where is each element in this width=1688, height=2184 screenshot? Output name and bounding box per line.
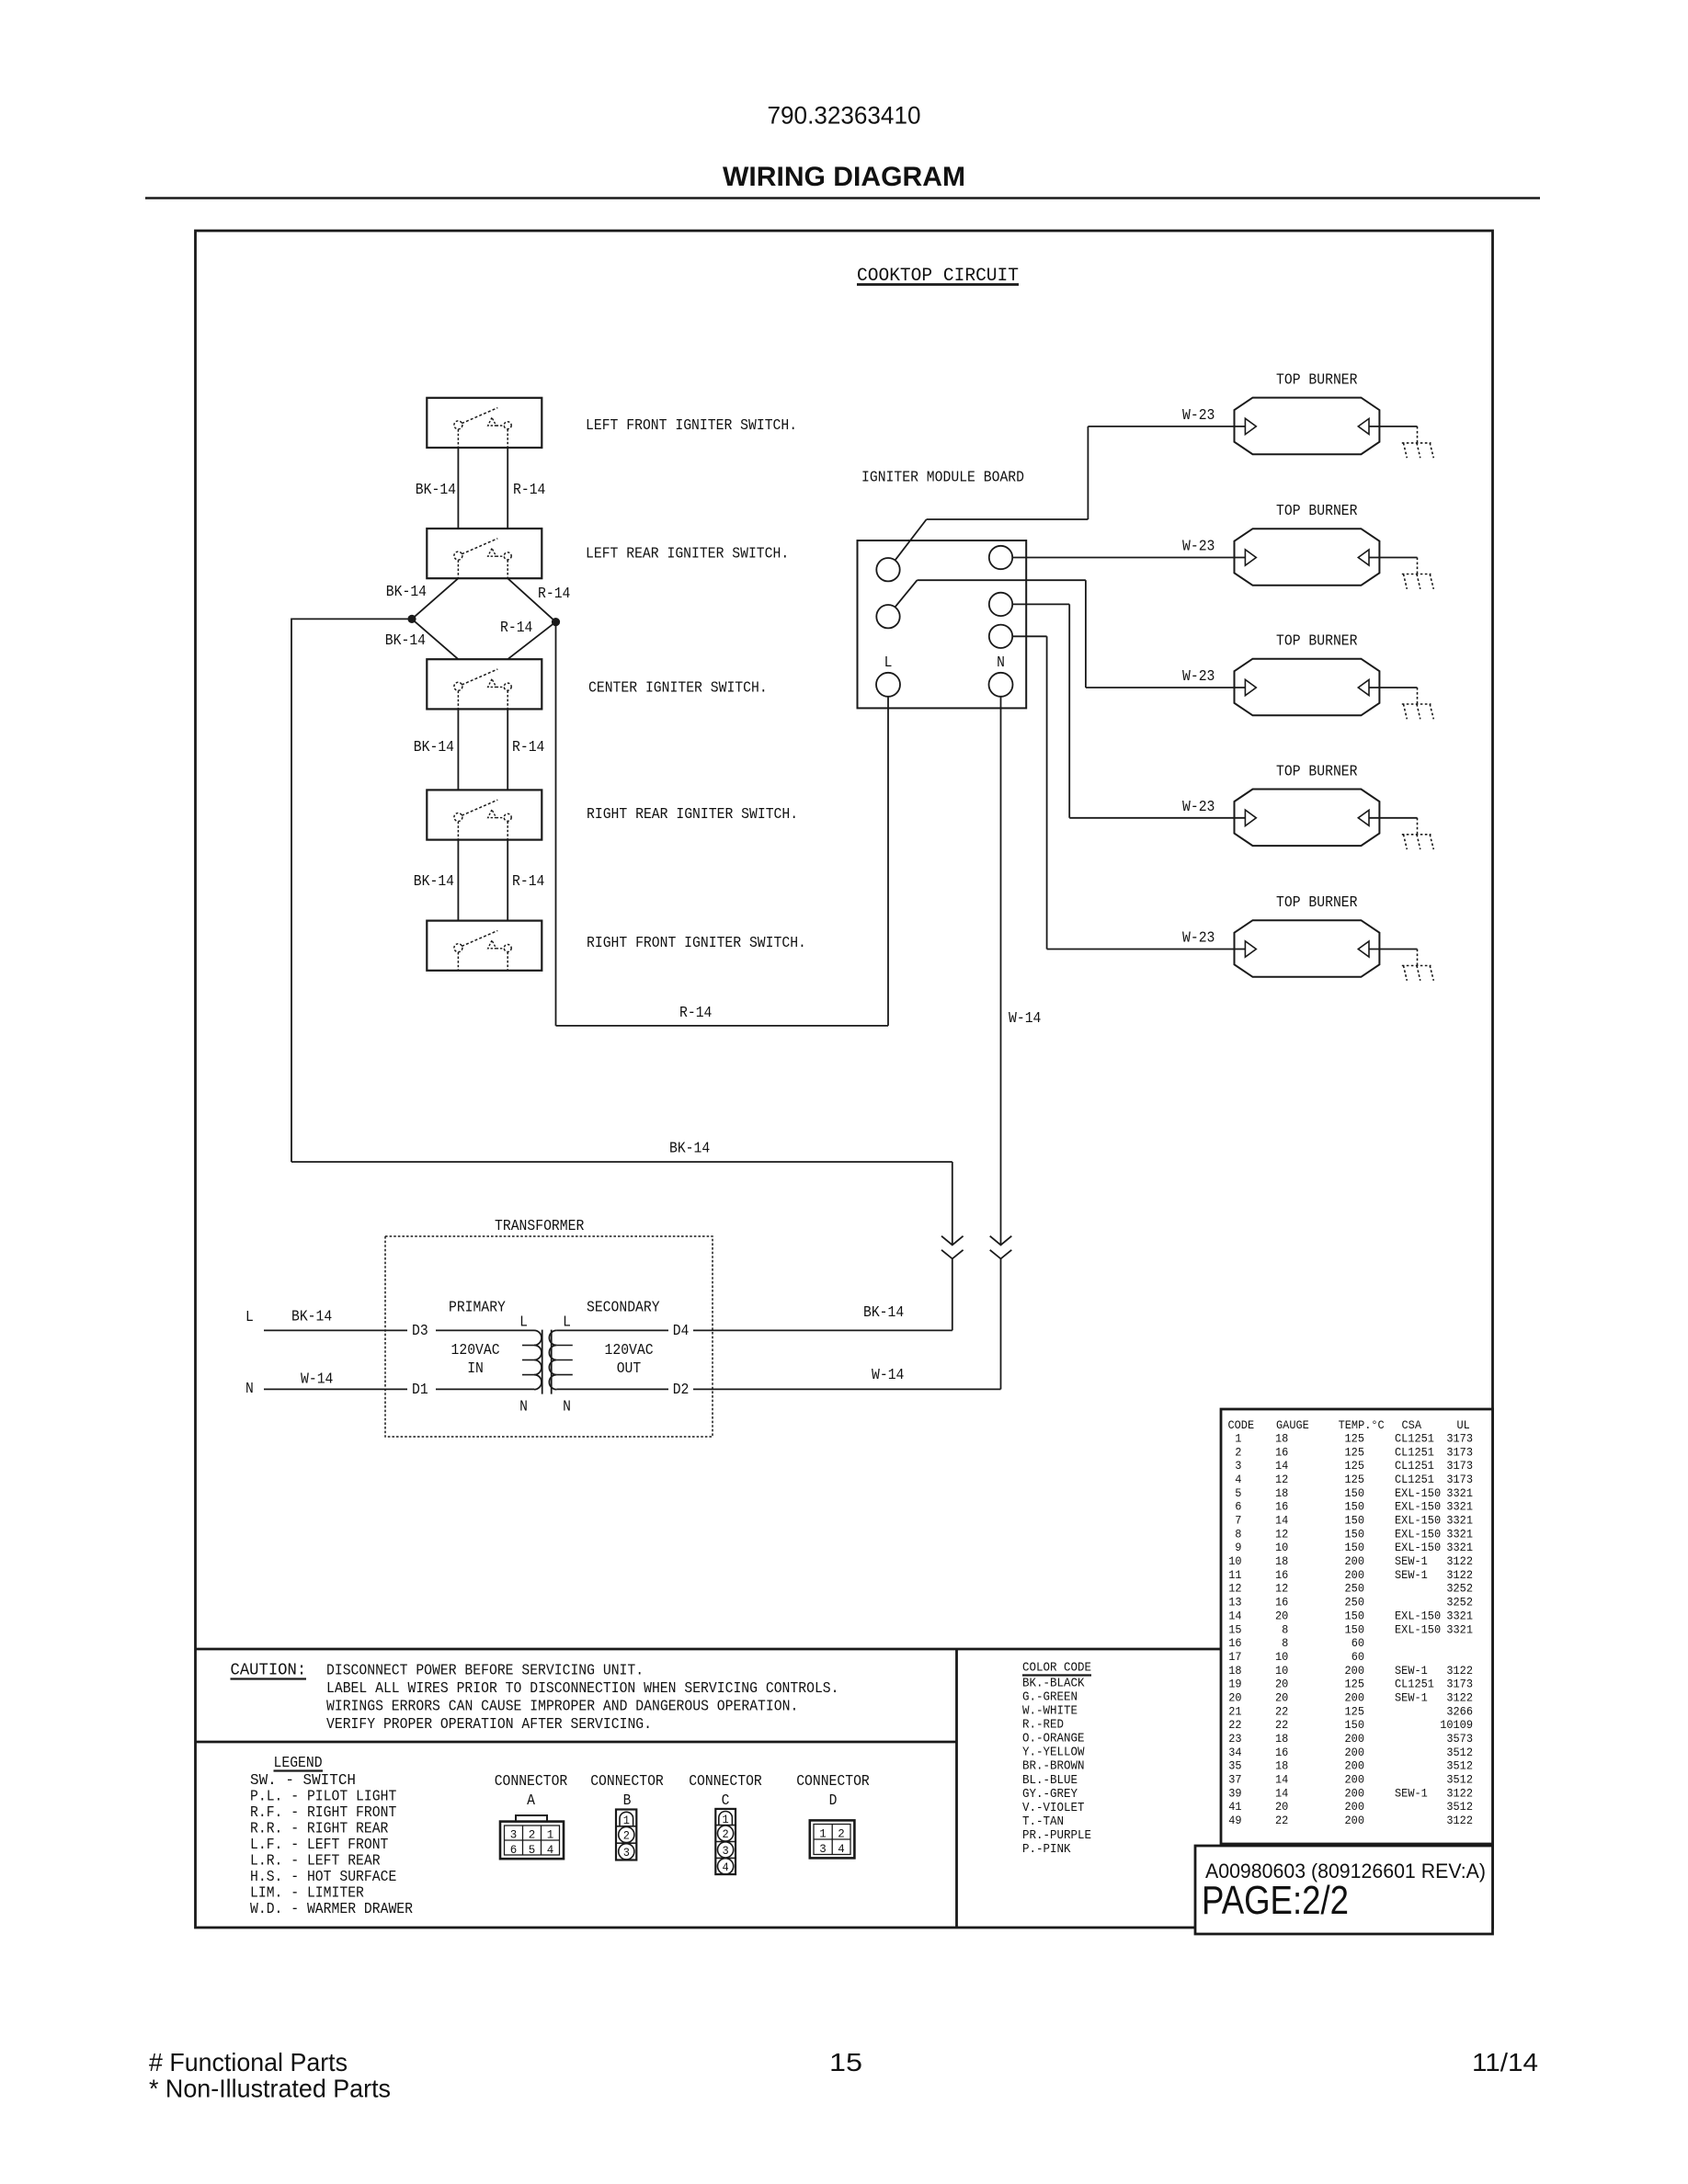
coil label N (secondary) <box>563 1398 571 1416</box>
svg-text:200: 200 <box>1345 1800 1365 1814</box>
wire BK-14 SW2 to junction <box>412 578 458 619</box>
svg-text:W-14: W-14 <box>872 1366 904 1383</box>
svg-text:TOP BURNER: TOP BURNER <box>1276 502 1358 519</box>
svg-text:4: 4 <box>723 1860 729 1874</box>
switch SW4 right rear igniter switch <box>427 790 542 839</box>
partition line above caution box <box>196 1648 1222 1651</box>
spark electrode ground B1 <box>1402 427 1434 458</box>
svg-text:13: 13 <box>1228 1596 1241 1610</box>
svg-text:8: 8 <box>1282 1622 1288 1636</box>
switch SW3 center igniter switch <box>427 659 542 709</box>
footer note non-illustrated parts <box>149 2075 391 2103</box>
wire W-14 module N down run <box>1000 697 1002 1245</box>
electrode arrow out (burner B2) <box>1358 550 1369 565</box>
svg-text:R.F. - RIGHT FRONT: R.F. - RIGHT FRONT <box>250 1803 396 1821</box>
label R-14 <box>679 1004 712 1021</box>
coil label L (primary) <box>519 1314 528 1331</box>
svg-text:8: 8 <box>1235 1527 1241 1541</box>
svg-text:7: 7 <box>1235 1514 1241 1528</box>
caution heading <box>231 1661 307 1680</box>
svg-text:CENTER IGNITER SWITCH.: CENTER IGNITER SWITCH. <box>588 679 768 697</box>
module terminal N <box>989 673 1013 697</box>
transformer secondary winding <box>549 1330 572 1389</box>
svg-text:3573: 3573 <box>1446 1732 1473 1746</box>
svg-text:N: N <box>519 1398 528 1416</box>
svg-text:9: 9 <box>1235 1541 1241 1554</box>
svg-text:EXL-150: EXL-150 <box>1395 1514 1441 1528</box>
caution text <box>326 1662 839 1734</box>
svg-text:14: 14 <box>1275 1773 1288 1787</box>
label BK-14 <box>669 1140 710 1157</box>
top burner B3 <box>1235 659 1380 716</box>
svg-text:250: 250 <box>1345 1582 1365 1596</box>
svg-text:W-14: W-14 <box>1009 1009 1041 1027</box>
svg-text:3512: 3512 <box>1446 1759 1473 1773</box>
svg-text:CSA: CSA <box>1402 1418 1422 1432</box>
wire W-23 module to burner B2 <box>1012 557 1245 559</box>
svg-text:R.R. - RIGHT REAR: R.R. - RIGHT REAR <box>250 1819 388 1837</box>
electrode arrow in (burner B1) <box>1245 418 1256 434</box>
coil label L (secondary) <box>563 1314 571 1331</box>
svg-text:3122: 3122 <box>1446 1664 1473 1678</box>
svg-text:200: 200 <box>1345 1664 1365 1678</box>
svg-text:W.-WHITE: W.-WHITE <box>1022 1705 1078 1719</box>
svg-text:14: 14 <box>1275 1514 1288 1528</box>
svg-text:3321: 3321 <box>1446 1500 1473 1514</box>
svg-text:3252: 3252 <box>1446 1596 1473 1610</box>
svg-text:3: 3 <box>819 1842 827 1856</box>
label TRANSFORMER <box>495 1217 584 1234</box>
svg-text:N: N <box>563 1398 571 1416</box>
label L (line in) <box>245 1308 254 1325</box>
footer note functional parts <box>149 2048 348 2076</box>
label TOP BURNER 1 <box>1276 370 1358 388</box>
pin label N <box>997 654 1005 671</box>
label RIGHT FRONT IGNITER SWITCH <box>587 934 806 951</box>
svg-text:CL1251: CL1251 <box>1395 1445 1434 1459</box>
svg-text:PAGE:2/2: PAGE:2/2 <box>1202 1878 1349 1923</box>
svg-text:P.L. - PILOT LIGHT: P.L. - PILOT LIGHT <box>250 1787 396 1804</box>
electrode arrow out (burner B3) <box>1358 680 1369 696</box>
svg-text:DISCONNECT POWER BEFORE SERVIC: DISCONNECT POWER BEFORE SERVICING UNIT. <box>326 1662 644 1679</box>
svg-text:1: 1 <box>819 1827 827 1841</box>
svg-text:D3: D3 <box>412 1322 428 1339</box>
label CONNECTOR B <box>590 1772 664 1809</box>
svg-text:RIGHT FRONT IGNITER SWITCH.: RIGHT FRONT IGNITER SWITCH. <box>587 934 806 951</box>
wire W-23 module to burner B1 <box>895 427 1245 561</box>
partition line below caution box <box>196 1741 957 1744</box>
label W-23 <box>1182 929 1215 947</box>
svg-text:17: 17 <box>1228 1650 1241 1664</box>
svg-text:Y.-YELLOW: Y.-YELLOW <box>1022 1746 1085 1760</box>
connector A <box>500 1815 564 1859</box>
switch SW5 right front igniter switch <box>427 921 542 971</box>
svg-text:2: 2 <box>529 1828 536 1842</box>
svg-text:CONNECTOR: CONNECTOR <box>495 1772 568 1790</box>
svg-text:1: 1 <box>547 1828 554 1842</box>
label BK-14 <box>863 1303 904 1321</box>
label BK-14 <box>414 872 454 890</box>
svg-text:R.-RED: R.-RED <box>1022 1719 1064 1733</box>
label TOP BURNER 5 <box>1276 893 1358 911</box>
svg-text:CAUTION:: CAUTION: <box>231 1661 307 1680</box>
svg-text:12: 12 <box>1275 1473 1288 1486</box>
svg-text:W-23: W-23 <box>1182 667 1215 685</box>
svg-text:200: 200 <box>1345 1568 1365 1582</box>
svg-text:200: 200 <box>1345 1691 1365 1705</box>
spark electrode ground B5 <box>1402 950 1434 981</box>
svg-text:WIRINGS ERRORS CAN CAUSE IMPRO: WIRINGS ERRORS CAN CAUSE IMPROPER AND DA… <box>326 1698 798 1715</box>
svg-text:60: 60 <box>1352 1650 1364 1664</box>
svg-text:3173: 3173 <box>1446 1473 1473 1486</box>
svg-text:39: 39 <box>1228 1786 1241 1800</box>
wire W-14 disconnect to D2 <box>693 1258 1001 1389</box>
transformer core <box>542 1330 552 1394</box>
svg-text:D1: D1 <box>412 1381 428 1398</box>
wire BK-14 junction to SW3 <box>412 619 458 659</box>
svg-text:EXL-150: EXL-150 <box>1395 1541 1441 1554</box>
wire R-14 up to module pin L <box>887 697 889 1026</box>
label BK-14 <box>291 1308 332 1325</box>
svg-text:14: 14 <box>1228 1609 1241 1622</box>
top burner B4 <box>1235 790 1380 847</box>
svg-text:BK.-BLACK: BK.-BLACK <box>1022 1678 1085 1691</box>
svg-text:GY.-GREY: GY.-GREY <box>1022 1788 1078 1802</box>
svg-text:12: 12 <box>1228 1582 1241 1596</box>
svg-text:D4: D4 <box>673 1322 690 1339</box>
svg-text:PR.-PURPLE: PR.-PURPLE <box>1022 1829 1091 1843</box>
label W-14 <box>301 1371 333 1388</box>
coil label N (primary) <box>519 1398 528 1416</box>
svg-text:200: 200 <box>1345 1732 1365 1746</box>
svg-text:4: 4 <box>838 1842 845 1856</box>
svg-text:BK-14: BK-14 <box>385 631 426 649</box>
svg-text:125: 125 <box>1345 1459 1365 1473</box>
wire burner B4 to spark electrode <box>1369 817 1418 819</box>
wire W-14 neutral input to D1 <box>264 1388 534 1390</box>
color code heading <box>1022 1662 1091 1676</box>
svg-text:TEMP.°C: TEMP.°C <box>1339 1418 1385 1432</box>
svg-text:EXL-150: EXL-150 <box>1395 1622 1441 1636</box>
wire D2 secondary output <box>556 1388 668 1390</box>
svg-text:14: 14 <box>1275 1459 1288 1473</box>
svg-text:125: 125 <box>1345 1432 1365 1446</box>
transformer primary winding <box>522 1330 542 1389</box>
document number box <box>1195 1846 1493 1934</box>
svg-text:18: 18 <box>1275 1554 1288 1568</box>
module terminal (left second) <box>876 605 899 628</box>
svg-text:3: 3 <box>1235 1459 1241 1473</box>
svg-text:3122: 3122 <box>1446 1814 1473 1827</box>
svg-text:N: N <box>997 654 1005 671</box>
svg-text:16: 16 <box>1275 1596 1288 1610</box>
svg-text:CODE: CODE <box>1228 1418 1255 1432</box>
wire BK-14 drop to disconnect <box>952 1162 953 1245</box>
svg-text:2: 2 <box>723 1827 729 1841</box>
connector D <box>810 1820 855 1858</box>
svg-text:3122: 3122 <box>1446 1691 1473 1705</box>
svg-text:22: 22 <box>1275 1814 1288 1827</box>
svg-text:LEFT REAR IGNITER SWITCH.: LEFT REAR IGNITER SWITCH. <box>586 545 789 563</box>
svg-text:LEFT FRONT IGNITER SWITCH.: LEFT FRONT IGNITER SWITCH. <box>586 416 797 434</box>
svg-text:14: 14 <box>1275 1786 1288 1800</box>
legend abbreviations <box>250 1771 413 1917</box>
label CENTER IGNITER SWITCH <box>588 679 768 697</box>
svg-text:R-14: R-14 <box>512 872 544 890</box>
svg-text:3321: 3321 <box>1446 1622 1473 1636</box>
svg-text:125: 125 <box>1345 1445 1365 1459</box>
svg-text:V.-VIOLET: V.-VIOLET <box>1022 1802 1085 1815</box>
svg-text:4: 4 <box>1235 1473 1241 1486</box>
module terminal L <box>876 673 900 697</box>
svg-text:L: L <box>245 1308 254 1325</box>
svg-text:22: 22 <box>1228 1718 1241 1732</box>
svg-text:3: 3 <box>723 1844 729 1858</box>
svg-text:R-14: R-14 <box>500 619 532 636</box>
svg-text:W-14: W-14 <box>301 1371 333 1388</box>
svg-text:P.-PINK: P.-PINK <box>1022 1843 1071 1857</box>
svg-text:BR.-BROWN: BR.-BROWN <box>1022 1760 1085 1774</box>
disconnect chevrons W-14 <box>990 1236 1012 1259</box>
svg-text:BK-14: BK-14 <box>416 481 456 498</box>
electrode arrow out (burner B1) <box>1358 418 1369 434</box>
svg-text:16: 16 <box>1275 1500 1288 1514</box>
wire BK-14 bottom horizontal run <box>291 1161 952 1163</box>
svg-text:3512: 3512 <box>1446 1746 1473 1759</box>
legend heading <box>274 1754 324 1771</box>
svg-text:37: 37 <box>1228 1773 1241 1787</box>
footer page number <box>829 2048 862 2076</box>
svg-text:150: 150 <box>1345 1541 1365 1554</box>
pin label D1 <box>412 1381 428 1398</box>
svg-text:IGNITER MODULE BOARD: IGNITER MODULE BOARD <box>861 469 1024 486</box>
svg-text:D2: D2 <box>673 1381 690 1398</box>
svg-text:19: 19 <box>1228 1678 1241 1691</box>
label BK-14 <box>416 481 456 498</box>
svg-text:CL1251: CL1251 <box>1395 1678 1434 1691</box>
svg-text:N: N <box>245 1380 254 1397</box>
svg-text:3122: 3122 <box>1446 1786 1473 1800</box>
svg-text:EXL-150: EXL-150 <box>1395 1527 1441 1541</box>
svg-text:L.R. - LEFT REAR: L.R. - LEFT REAR <box>250 1851 381 1869</box>
svg-text:UL: UL <box>1457 1418 1470 1432</box>
svg-text:IN: IN <box>467 1359 484 1377</box>
svg-text:18: 18 <box>1228 1664 1241 1678</box>
svg-text:10: 10 <box>1228 1554 1241 1568</box>
svg-text:23: 23 <box>1228 1732 1241 1746</box>
svg-text:18: 18 <box>1275 1432 1288 1446</box>
svg-text:SW. - SWITCH: SW. - SWITCH <box>250 1771 356 1789</box>
module terminal (left top) <box>876 558 899 581</box>
svg-text:1: 1 <box>1235 1432 1241 1446</box>
label RIGHT REAR IGNITER SWITCH <box>587 805 798 823</box>
wire R-14 junction down run <box>555 622 557 1026</box>
svg-text:150: 150 <box>1345 1718 1365 1732</box>
svg-text:11/14: 11/14 <box>1472 2048 1538 2076</box>
svg-text:3321: 3321 <box>1446 1514 1473 1528</box>
label W-23 <box>1182 798 1215 815</box>
svg-text:120VAC: 120VAC <box>605 1341 654 1359</box>
svg-text:BK-14: BK-14 <box>669 1140 710 1157</box>
svg-text:125: 125 <box>1345 1473 1365 1486</box>
svg-text:200: 200 <box>1345 1759 1365 1773</box>
svg-text:200: 200 <box>1345 1554 1365 1568</box>
svg-text:SEW-1: SEW-1 <box>1395 1691 1428 1705</box>
wire R-14 junction to SW3 <box>508 622 555 660</box>
svg-text:SECONDARY: SECONDARY <box>587 1299 660 1316</box>
top burner B5 <box>1235 920 1380 977</box>
svg-text:200: 200 <box>1345 1746 1365 1759</box>
svg-text:5: 5 <box>529 1843 536 1857</box>
svg-text:A: A <box>527 1792 535 1809</box>
wire BK-14 junction west run <box>291 618 412 620</box>
svg-text:3173: 3173 <box>1446 1678 1473 1691</box>
svg-text:16: 16 <box>1275 1746 1288 1759</box>
svg-text:3512: 3512 <box>1446 1773 1473 1787</box>
svg-text:10: 10 <box>1275 1650 1288 1664</box>
svg-text:LIM. - LIMITER: LIM. - LIMITER <box>250 1883 364 1901</box>
label TOP BURNER 3 <box>1276 632 1358 650</box>
label SECONDARY <box>587 1299 660 1316</box>
svg-text:1: 1 <box>623 1814 630 1827</box>
label 120VAC IN <box>451 1341 500 1377</box>
svg-text:12: 12 <box>1275 1527 1288 1541</box>
pin label D4 <box>673 1322 690 1339</box>
electrode arrow in (burner B5) <box>1245 941 1256 957</box>
svg-text:LEGEND: LEGEND <box>274 1754 323 1771</box>
svg-text:W.D. - WARMER DRAWER: W.D. - WARMER DRAWER <box>250 1900 413 1917</box>
svg-text:SEW-1: SEW-1 <box>1395 1568 1428 1582</box>
svg-text:L: L <box>884 654 893 671</box>
svg-text:W-23: W-23 <box>1182 538 1215 555</box>
svg-text:OUT: OUT <box>617 1359 642 1377</box>
label PRIMARY <box>449 1299 506 1316</box>
module terminal (right top) <box>989 546 1012 569</box>
svg-text:2: 2 <box>1235 1445 1241 1459</box>
svg-text:SEW-1: SEW-1 <box>1395 1786 1428 1800</box>
svg-text:COLOR CODE: COLOR CODE <box>1022 1662 1091 1676</box>
wire R-14 SW4 to SW5 <box>507 840 508 921</box>
svg-text:15: 15 <box>829 2048 862 2076</box>
svg-text:CONNECTOR: CONNECTOR <box>590 1772 664 1790</box>
svg-text:18: 18 <box>1275 1486 1288 1500</box>
transformer T1 enclosure <box>385 1236 713 1437</box>
igniter module board U1 <box>858 540 1027 708</box>
svg-text:EXL-150: EXL-150 <box>1395 1500 1441 1514</box>
svg-text:125: 125 <box>1345 1678 1365 1691</box>
svg-text:RIGHT REAR IGNITER SWITCH.: RIGHT REAR IGNITER SWITCH. <box>587 805 798 823</box>
wire table rows <box>1228 1432 1473 1828</box>
label R-14 <box>512 872 544 890</box>
wire burner B3 to spark electrode <box>1369 687 1418 688</box>
label R-14 <box>538 585 570 602</box>
page heading WIRING DIAGRAM <box>723 162 965 192</box>
svg-text:PRIMARY: PRIMARY <box>449 1299 506 1316</box>
svg-text:CONNECTOR: CONNECTOR <box>689 1772 762 1790</box>
label TOP BURNER 4 <box>1276 762 1358 779</box>
svg-text:20: 20 <box>1275 1800 1288 1814</box>
svg-text:3321: 3321 <box>1446 1527 1473 1541</box>
svg-text:# Functional Parts: # Functional Parts <box>149 2048 348 2076</box>
color code list <box>1022 1678 1091 1857</box>
svg-text:O.-ORANGE: O.-ORANGE <box>1022 1733 1085 1746</box>
label 120VAC OUT <box>605 1341 654 1377</box>
label W-23 <box>1182 538 1215 555</box>
electrode arrow in (burner B4) <box>1245 810 1256 825</box>
wire R-14 SW3 to SW4 <box>507 709 508 790</box>
label BK-14 <box>386 583 427 600</box>
svg-text:SEW-1: SEW-1 <box>1395 1664 1428 1678</box>
svg-text:L.F. - LEFT FRONT: L.F. - LEFT FRONT <box>250 1836 388 1853</box>
svg-text:EXL-150: EXL-150 <box>1395 1609 1441 1622</box>
svg-text:3266: 3266 <box>1446 1704 1473 1718</box>
svg-text:16: 16 <box>1275 1568 1288 1582</box>
svg-text:21: 21 <box>1228 1704 1241 1718</box>
electrode arrow in (burner B2) <box>1245 550 1256 565</box>
wire BK-14 line input to D3 <box>264 1329 534 1331</box>
svg-text:6: 6 <box>1235 1500 1241 1514</box>
svg-text:15: 15 <box>1228 1622 1241 1636</box>
svg-text:16: 16 <box>1275 1445 1288 1459</box>
svg-text:T.-TAN: T.-TAN <box>1022 1815 1064 1829</box>
electrode arrow in (burner B3) <box>1245 679 1256 695</box>
svg-text:10: 10 <box>1275 1541 1288 1554</box>
svg-text:20: 20 <box>1275 1609 1288 1622</box>
svg-text:3122: 3122 <box>1446 1568 1473 1582</box>
label BK-14 <box>414 738 454 756</box>
label R-14 <box>513 481 545 498</box>
module terminal (right second) <box>989 593 1012 616</box>
label BK-14 <box>385 631 426 649</box>
pin label D3 <box>412 1322 428 1339</box>
svg-text:BK-14: BK-14 <box>414 872 454 890</box>
svg-text:CL1251: CL1251 <box>1395 1473 1434 1486</box>
svg-text:TOP BURNER: TOP BURNER <box>1276 632 1358 650</box>
module terminal (right third) <box>989 625 1012 648</box>
svg-text:150: 150 <box>1345 1514 1365 1528</box>
spark electrode ground B3 <box>1402 688 1434 719</box>
wire BK-14 switch SW1 to SW2 (left pin) <box>457 448 459 529</box>
svg-text:W-23: W-23 <box>1182 406 1215 424</box>
label CONNECTOR C <box>689 1772 762 1809</box>
svg-text:C: C <box>722 1792 730 1809</box>
svg-text:8: 8 <box>1282 1636 1288 1650</box>
svg-text:BL.-BLUE: BL.-BLUE <box>1022 1774 1078 1788</box>
svg-text:TOP BURNER: TOP BURNER <box>1276 762 1358 779</box>
wire W-23 module to burner B4 <box>1012 604 1245 817</box>
svg-text:3321: 3321 <box>1446 1609 1473 1622</box>
svg-text:18: 18 <box>1275 1759 1288 1773</box>
footer date <box>1472 2048 1538 2076</box>
svg-text:SEW-1: SEW-1 <box>1395 1554 1428 1568</box>
svg-text:L: L <box>519 1314 528 1331</box>
svg-text:120VAC: 120VAC <box>451 1341 500 1359</box>
svg-text:3: 3 <box>510 1828 518 1842</box>
electrode arrow out (burner B5) <box>1358 941 1369 957</box>
heading rule <box>145 197 1540 199</box>
switch SW2 left rear igniter switch <box>427 529 542 578</box>
label N (neutral in) <box>245 1380 254 1397</box>
wire burner B1 to spark electrode <box>1369 426 1418 427</box>
svg-text:60: 60 <box>1352 1636 1364 1650</box>
wire BK-14 disconnect to D4 <box>693 1258 952 1330</box>
label W-23 <box>1182 667 1215 685</box>
svg-text:D: D <box>829 1792 838 1809</box>
schematic border frame <box>196 231 1493 1928</box>
electrode arrow out (burner B4) <box>1358 810 1369 825</box>
svg-text:6: 6 <box>510 1843 518 1857</box>
wire W-23 module to burner B3 <box>895 580 1245 688</box>
